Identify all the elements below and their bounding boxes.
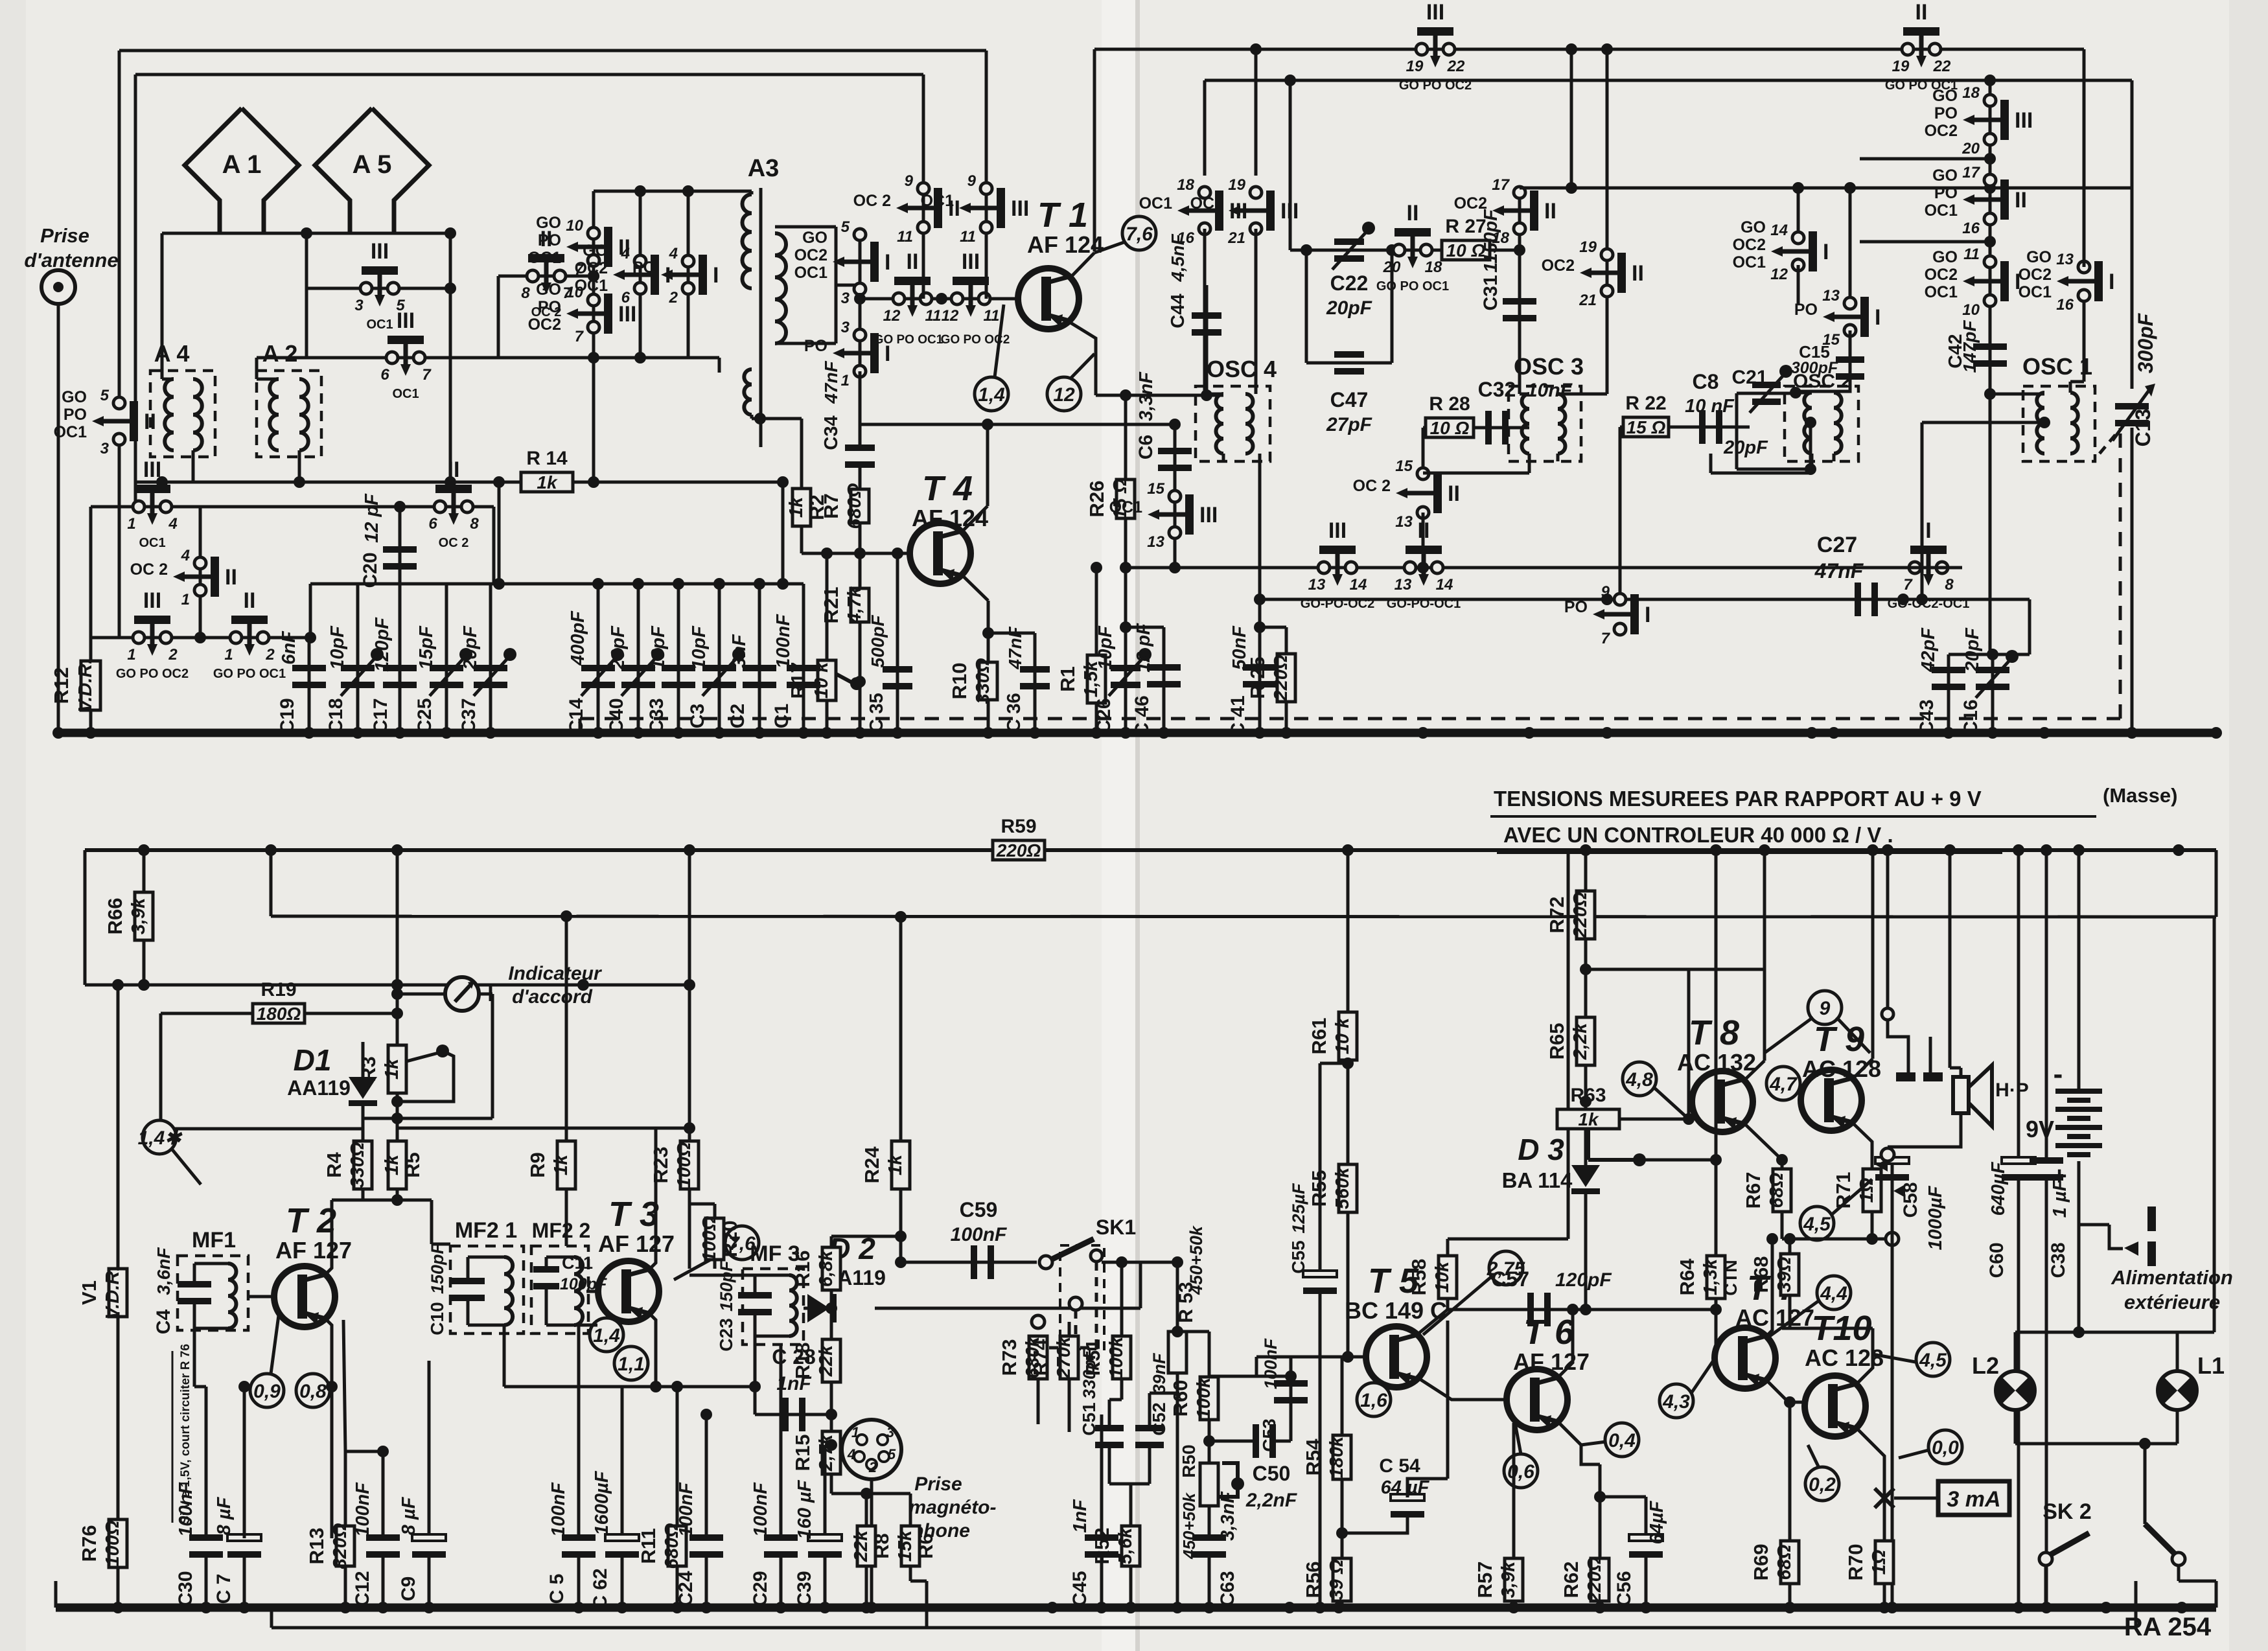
svg-text:OC1: OC1 — [528, 249, 562, 267]
resistor R10 — [948, 658, 997, 704]
voltage T8 base — [1623, 1062, 1656, 1096]
svg-text:15 Ω: 15 Ω — [1626, 417, 1666, 437]
junction — [294, 476, 305, 488]
svg-text:4: 4 — [669, 245, 678, 262]
svg-text:GO PO OC1: GO PO OC1 — [1376, 279, 1449, 294]
svg-text:0,0: 0,0 — [1932, 1437, 1959, 1459]
svg-text:T 4: T 4 — [922, 469, 973, 508]
svg-text:4: 4 — [621, 245, 630, 262]
wire emitter to OSC4 — [1096, 394, 1223, 397]
svg-text:+: + — [2052, 1162, 2066, 1190]
junction — [1250, 43, 1262, 55]
svg-text:1: 1 — [224, 646, 233, 664]
junction — [634, 352, 646, 364]
capacitor C42 147pF — [1973, 343, 2007, 367]
junction — [936, 293, 947, 305]
wire — [865, 1494, 868, 1525]
wire — [754, 1336, 757, 1414]
svg-text:R66: R66 — [104, 898, 126, 935]
transformer OSC4 coil R — [1245, 394, 1253, 454]
wire C28 row — [755, 1413, 831, 1416]
junction — [821, 548, 833, 559]
svg-text:R72: R72 — [1545, 897, 1568, 934]
svg-text:III: III — [143, 588, 161, 613]
switch II GO PO OC1 1-2 — [213, 588, 286, 681]
junction on bottom bus — [1333, 1602, 1345, 1613]
switch I GO/OC2/OC1 13-16 — [2019, 248, 2115, 314]
wire — [159, 1013, 163, 1129]
svg-text:C23: C23 — [716, 1318, 736, 1351]
wire top frame 2 — [135, 73, 923, 76]
wire — [305, 288, 308, 358]
svg-text:R26: R26 — [1085, 481, 1108, 518]
wire ext frame right — [2213, 917, 2216, 1332]
wire sw col 2480 — [1606, 49, 1609, 327]
wire T2 base — [248, 1295, 274, 1299]
junction — [1342, 1351, 1354, 1363]
wire C44 stub — [1205, 285, 1209, 395]
wire — [654, 1127, 658, 1130]
capacitor C52 39nF — [1135, 1425, 1164, 1448]
svg-text:R57: R57 — [1474, 1562, 1496, 1599]
tuning gang dashed link — [580, 717, 2120, 721]
wire — [432, 1243, 450, 1246]
capacitor C11 100pF — [533, 1266, 559, 1289]
svg-text:Prise: Prise — [40, 224, 89, 247]
capacitor C41 50nF — [1243, 664, 1277, 687]
wire — [1203, 386, 1207, 394]
svg-text:15k: 15k — [895, 1529, 916, 1562]
svg-text:MF2 1: MF2 1 — [455, 1218, 517, 1243]
svg-text:R10: R10 — [948, 663, 971, 700]
svg-text:R19: R19 — [260, 979, 296, 1000]
wire row 876 — [1125, 566, 1750, 570]
wire C13 col — [2131, 80, 2134, 389]
wire to OSC4 — [1203, 229, 1207, 386]
resistor R1 — [1056, 655, 1105, 703]
wire — [1781, 1212, 1784, 1239]
wire C57 row — [1448, 1308, 1573, 1311]
wire — [1873, 1354, 1915, 1362]
svg-text:PO: PO — [538, 231, 561, 249]
resistor R 25 — [1246, 654, 1295, 702]
junction on bottom bus — [1640, 1602, 1652, 1613]
svg-text:220Ω: 220Ω — [1584, 1556, 1605, 1603]
transistor T 4 AF 124 — [910, 469, 988, 584]
wire — [1735, 427, 1739, 469]
wire — [1687, 1102, 1691, 1119]
capacitor C44 4,5nF — [1192, 312, 1221, 336]
wire — [1567, 850, 1570, 1239]
resistor R65 — [1545, 1017, 1595, 1065]
svg-text:7: 7 — [422, 366, 432, 384]
wire — [1891, 1177, 1894, 1239]
svg-text:GO: GO — [1932, 248, 1958, 266]
wire — [579, 719, 582, 733]
wire C50 row — [1209, 1440, 1255, 1443]
svg-text:18: 18 — [1962, 84, 1980, 102]
svg-text:III: III — [371, 239, 389, 264]
svg-text:20pF: 20pF — [1723, 437, 1768, 458]
svg-text:11: 11 — [960, 228, 976, 246]
svg-text:OC1: OC1 — [1139, 194, 1173, 213]
SK1 pole 2 — [1069, 1297, 1082, 1310]
wire — [1891, 1161, 1894, 1239]
svg-text:47nF: 47nF — [1814, 559, 1864, 583]
resistor R71 — [1832, 1169, 1881, 1212]
svg-text:1: 1 — [181, 591, 190, 608]
wire — [428, 1554, 431, 1608]
transistor T 9 AC 128 — [1801, 1020, 1881, 1131]
wire T4 emitter diag — [961, 574, 988, 601]
wire — [2014, 1410, 2017, 1444]
wire — [830, 1474, 833, 1494]
svg-text:1k: 1k — [382, 1057, 402, 1079]
svg-text:R21: R21 — [820, 587, 842, 624]
junction on bus — [798, 727, 809, 739]
junction — [749, 1381, 761, 1392]
svg-text:1,4: 1,4 — [978, 384, 1005, 406]
junction — [895, 1256, 907, 1268]
wire T9 emitter — [1853, 1124, 1872, 1168]
junction on bus — [854, 727, 866, 739]
wire — [2176, 1410, 2179, 1444]
svg-text:OC2: OC2 — [794, 246, 827, 264]
junction — [895, 911, 907, 923]
wire C1 col — [802, 584, 805, 733]
wire — [1037, 1379, 1040, 1424]
junction on bus — [52, 727, 64, 739]
svg-text:R 14: R 14 — [526, 448, 568, 469]
junction — [1784, 1396, 1796, 1408]
wire C29 col — [780, 1345, 783, 1538]
svg-text:5: 5 — [888, 1446, 896, 1462]
wire R1 col — [1095, 568, 1098, 733]
svg-text:160 µF: 160 µF — [794, 1479, 815, 1539]
svg-text:64 µF: 64 µF — [1381, 1477, 1430, 1498]
resistor R56 — [1302, 1558, 1351, 1601]
wire — [309, 584, 312, 638]
wire — [1341, 1533, 1344, 1558]
svg-text:12: 12 — [883, 307, 901, 325]
junction on bottom bus — [423, 1602, 435, 1613]
junction — [684, 1122, 695, 1134]
wire rail 1415 — [271, 916, 2216, 917]
wire C39 col — [824, 1445, 827, 1538]
wire T10 collector — [1857, 1328, 1873, 1383]
svg-text:C9: C9 — [398, 1576, 419, 1601]
junction on bottom bus — [2041, 1602, 2052, 1613]
wire sw col 2775 — [1797, 188, 1800, 238]
svg-text:14: 14 — [1436, 576, 1453, 594]
junction — [1683, 1113, 1695, 1125]
capacitor C29 100nF — [764, 1534, 798, 1558]
tuning meter Indicateur d'accord — [445, 977, 479, 1011]
svg-text:-: - — [2054, 1058, 2063, 1090]
junction on bottom bus — [1172, 1602, 1183, 1613]
wire — [545, 1286, 548, 1325]
svg-text:V.D.R.: V.D.R. — [102, 1266, 123, 1320]
wire — [332, 1199, 363, 1202]
wire to voltage circle — [1094, 242, 1126, 253]
junction — [391, 1008, 403, 1019]
junction on bottom bus — [340, 1602, 351, 1613]
wire — [1176, 1373, 1179, 1608]
wire — [1208, 1420, 1211, 1462]
wire line290 — [1520, 187, 2132, 190]
junction — [1116, 1256, 1128, 1268]
switch II GO/PO/OC1 17-16 — [1925, 164, 2027, 237]
resistor R 28 — [1426, 393, 1474, 438]
switch II GO/PO/OC1 10-7 — [528, 214, 631, 279]
wire sw col 2855 — [1849, 188, 1852, 303]
svg-text:1k: 1k — [551, 1153, 572, 1175]
wire C20 col — [399, 507, 402, 584]
transformer OSC1 coil L — [2037, 393, 2044, 454]
wire R72 col — [1584, 850, 1588, 892]
wire to voltage circle — [995, 305, 1004, 377]
svg-text:3: 3 — [354, 297, 364, 314]
svg-text:A 1: A 1 — [222, 150, 262, 179]
svg-text:C3: C3 — [687, 704, 708, 728]
wire — [1518, 363, 1522, 394]
svg-text:68Ω: 68Ω — [1774, 1544, 1795, 1580]
svg-text:560k: 560k — [1332, 1166, 1353, 1209]
wire sw col 3071 — [1989, 80, 1992, 394]
svg-text:GO: GO — [1932, 87, 1958, 105]
wire — [1422, 428, 1425, 474]
svg-text:20pF: 20pF — [608, 625, 629, 671]
trimmer arrow C40 20pF — [621, 648, 664, 696]
capacitor C60 640uF — [2002, 1157, 2035, 1181]
wire mid row 901 — [310, 583, 804, 586]
svg-text:R8: R8 — [870, 1533, 893, 1559]
svg-text:22: 22 — [1447, 58, 1465, 75]
svg-text:Prise: Prise — [914, 1473, 962, 1495]
capacitor C31 1150pF — [1503, 298, 1536, 321]
svg-text:OC1: OC1 — [1925, 202, 1958, 220]
junction — [1169, 562, 1181, 573]
frame antenna A 1 — [185, 108, 299, 233]
wire — [586, 1290, 598, 1293]
junction on bus — [673, 727, 684, 739]
svg-text:II: II — [1544, 199, 1556, 224]
svg-text:OC2: OC2 — [2019, 266, 2052, 284]
wire — [1797, 265, 1800, 305]
capacitor C8 10nF — [1699, 410, 1722, 444]
svg-text:L2: L2 — [1972, 1352, 1999, 1379]
svg-text:GO PO OC1: GO PO OC1 — [874, 333, 943, 347]
capacitor C38 1uF — [2030, 1157, 2063, 1181]
svg-text:14: 14 — [1770, 222, 1788, 239]
svg-text:OC1: OC1 — [54, 423, 87, 441]
svg-text:C63: C63 — [1217, 1571, 1238, 1606]
wire T6 collector — [1559, 1310, 1573, 1376]
wire — [755, 1335, 789, 1338]
wire — [579, 1324, 597, 1327]
wire — [1687, 969, 1691, 1119]
wire top right rail 2 — [1205, 79, 2132, 82]
switch SK2 — [2050, 1533, 2089, 1555]
wire A3 taps join — [835, 227, 838, 343]
wire meter L — [414, 993, 445, 996]
wire D1 col — [362, 1042, 365, 1077]
wire — [1606, 327, 1609, 394]
junction — [1254, 594, 1266, 605]
wire cap col — [445, 584, 448, 733]
wire C35 col — [896, 553, 899, 733]
resistor R66 — [104, 892, 153, 940]
wire R25 col — [1285, 627, 1288, 733]
junction — [1172, 1326, 1183, 1337]
capacitor C37 20pF — [474, 665, 507, 688]
resistor R9 — [526, 1141, 575, 1189]
wire — [676, 1566, 679, 1608]
resistor R61 — [1308, 1012, 1357, 1060]
junction on bus — [982, 727, 994, 739]
svg-text:19: 19 — [1579, 238, 1597, 256]
svg-text:6: 6 — [380, 366, 389, 384]
switch II OC 2 9-11 — [853, 172, 960, 246]
svg-text:39Ω: 39Ω — [1774, 1256, 1795, 1292]
underline — [1490, 815, 2096, 818]
svg-text:(Masse): (Masse) — [2103, 784, 2177, 807]
svg-text:125µF: 125µF — [1289, 1183, 1308, 1234]
junction on bus — [1601, 727, 1613, 739]
wire row 876b — [1750, 566, 1962, 570]
junction — [673, 578, 684, 590]
wire GO PO row — [91, 636, 309, 640]
wire — [1886, 850, 1890, 1008]
junction on bus — [394, 727, 406, 739]
svg-text:A3: A3 — [748, 155, 780, 182]
trimmer arrow C3 10pF — [702, 648, 745, 696]
wire T8 collector rail — [1763, 850, 1766, 1061]
junction — [895, 1230, 907, 1242]
svg-text:20: 20 — [1383, 259, 1401, 276]
svg-text:180Ω: 180Ω — [257, 1004, 301, 1024]
resistor R59 — [993, 816, 1045, 860]
svg-text:C32: C32 — [1478, 378, 1516, 401]
voltage — [1766, 1067, 1800, 1100]
transformer A3 coil right — [775, 233, 786, 343]
transistor T10 AC 128 — [1805, 1309, 1884, 1437]
capacitor C20 12pF — [383, 546, 417, 570]
voltage T3 — [725, 1226, 759, 1260]
svg-text:C14: C14 — [566, 698, 587, 733]
wire — [1950, 1067, 1961, 1070]
svg-text:22k: 22k — [816, 1344, 837, 1377]
wire — [162, 378, 174, 381]
wire T1 collector up — [1093, 49, 1096, 251]
wire antenna bus — [162, 232, 450, 235]
resistor R11 — [637, 1523, 686, 1569]
voltage T1 emitter — [1047, 377, 1081, 411]
switch III OC1 3-5 — [354, 239, 405, 332]
wire — [1290, 1357, 1293, 1376]
wire C45 col — [1100, 1414, 1104, 1538]
junction — [632, 578, 644, 590]
wire R53 col — [1176, 1262, 1179, 1332]
transformer OSC2 coil L — [1804, 393, 1812, 454]
switch II OC 2 6-8 — [428, 457, 479, 550]
wire — [988, 632, 1035, 635]
svg-text:10nF: 10nF — [1527, 380, 1573, 401]
junction — [1984, 75, 1996, 86]
wire C31 col — [1518, 188, 1522, 363]
voltage T5 base — [1357, 1383, 1391, 1416]
wire — [2028, 599, 2031, 654]
wire C46 col — [1163, 627, 1166, 733]
wire C16 col — [1991, 654, 1995, 733]
junction — [1091, 562, 1102, 573]
wire SK1 dashed — [1038, 1262, 1096, 1361]
svg-text:R11: R11 — [637, 1528, 660, 1564]
wire C40 col — [637, 584, 640, 733]
svg-text:13: 13 — [1395, 513, 1413, 531]
junction on rail — [391, 844, 403, 856]
resistor R54 — [1302, 1435, 1351, 1479]
svg-text:4: 4 — [168, 515, 177, 533]
wire — [1586, 968, 1765, 971]
wire sw I PO col — [687, 191, 690, 358]
wire — [467, 1299, 470, 1325]
wire C56 col — [1645, 1497, 1648, 1538]
junction on rail — [684, 844, 695, 856]
wire — [343, 1320, 345, 1451]
junction — [700, 1409, 712, 1420]
junction — [2073, 1326, 2085, 1338]
svg-text:C39: C39 — [794, 1571, 815, 1606]
svg-text:R12: R12 — [50, 667, 73, 704]
svg-text:II: II — [1632, 261, 1644, 286]
junction on bottom bus — [1314, 1602, 1326, 1613]
junction on bottom bus — [2013, 1602, 2024, 1613]
switch III 12-11 — [942, 249, 1000, 325]
junction — [1203, 1435, 1215, 1447]
wire — [754, 1275, 757, 1299]
wire T1 switch col left — [922, 75, 925, 189]
svg-text:OC2: OC2 — [1733, 236, 1766, 254]
capacitor C30 100nF — [189, 1534, 223, 1558]
wire OC1 6-7 line — [257, 356, 719, 360]
wire — [382, 1554, 385, 1608]
wire — [270, 850, 273, 916]
junction — [1120, 562, 1131, 573]
wire — [1255, 1357, 1258, 1376]
wire C12 col — [382, 1451, 385, 1538]
wire lamp top — [2015, 1331, 2214, 1334]
junction — [561, 910, 572, 922]
wire — [1120, 1379, 1124, 1400]
wire meter R — [479, 993, 492, 996]
wire — [363, 1117, 492, 1120]
svg-text:OSC 3: OSC 3 — [1514, 353, 1584, 380]
wire — [824, 1554, 827, 1608]
junction on bus — [754, 727, 765, 739]
wire T8 emitter — [1746, 1125, 1782, 1168]
tuning gang arrow — [2100, 429, 2120, 454]
junction on bottom bus — [819, 1602, 831, 1613]
junction on bus — [592, 727, 604, 739]
wire — [1177, 1330, 1209, 1333]
capacitor C25 15pF — [430, 665, 463, 688]
svg-text:Indicateur: Indicateur — [508, 963, 603, 984]
svg-text:OC2: OC2 — [1925, 266, 1958, 284]
svg-text:150pF: 150pF — [428, 1242, 447, 1294]
wire — [546, 1324, 574, 1327]
voltage — [1800, 1206, 1834, 1240]
